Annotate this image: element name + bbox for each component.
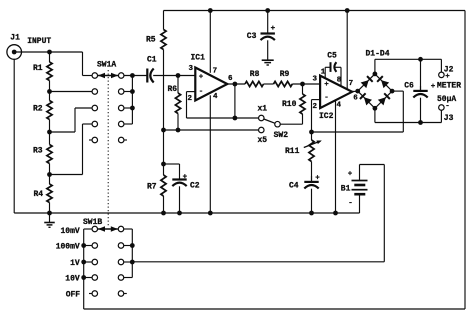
diode D4 bbox=[378, 97, 386, 105]
IC2 pin2 wire bbox=[312, 99, 321, 101]
node bridge bottom bbox=[373, 106, 378, 111]
wire to SW1A row2 bbox=[50, 91, 92, 93]
svg-text:+: + bbox=[431, 83, 436, 91]
node bridge left bbox=[355, 89, 360, 94]
svg-text:C5: C5 bbox=[327, 51, 337, 60]
switch SW2 bbox=[259, 115, 265, 121]
svg-text:R1: R1 bbox=[33, 64, 43, 73]
svg-text:IC1: IC1 bbox=[191, 53, 206, 62]
wire input to SW1A bbox=[14, 51, 82, 53]
svg-text:+: + bbox=[183, 173, 188, 181]
svg-text:SW1B: SW1B bbox=[83, 218, 102, 227]
resistor R7 bbox=[163, 164, 165, 175]
IC1 pin4 to ground bbox=[209, 95, 211, 213]
svg-text:SW2: SW2 bbox=[274, 131, 289, 140]
svg-text:+: + bbox=[315, 175, 320, 183]
IC1 pin7 to V+ bbox=[209, 11, 211, 73]
resistor R2 bbox=[49, 92, 51, 101]
svg-text:4: 4 bbox=[213, 93, 218, 101]
svg-text:R9: R9 bbox=[280, 70, 290, 79]
wire bridge bottom to J3 bbox=[374, 108, 376, 122]
resistor R9 bbox=[274, 81, 293, 86]
svg-text:C4: C4 bbox=[289, 181, 299, 190]
node R5R7/x5 bbox=[161, 128, 166, 133]
SW2 wiper bbox=[264, 119, 275, 123]
svg-text:R11: R11 bbox=[285, 147, 300, 156]
V+ supply loop bottom bbox=[84, 308, 465, 310]
node R4/ground rail bbox=[47, 211, 52, 216]
svg-text:R5: R5 bbox=[146, 35, 156, 44]
SW1B right bus bbox=[124, 228, 133, 230]
svg-text:-: - bbox=[348, 200, 353, 208]
resistor R1 bbox=[49, 52, 51, 62]
svg-text:1V: 1V bbox=[70, 259, 80, 268]
node input/R1 bbox=[47, 50, 52, 55]
svg-text:-: - bbox=[324, 94, 329, 102]
node C1/R6 bbox=[176, 73, 181, 78]
diode bridge D1-D4 bbox=[358, 74, 392, 108]
node C6 bottom bbox=[418, 120, 423, 125]
SW1B left bus bbox=[84, 228, 92, 230]
svg-text:100mV: 100mV bbox=[56, 243, 80, 252]
diode D2 bbox=[381, 80, 389, 88]
terminal J3 bbox=[439, 105, 445, 111]
node bridge right bbox=[390, 89, 395, 94]
svg-text:4: 4 bbox=[337, 101, 342, 109]
svg-text:+: + bbox=[445, 73, 450, 81]
op-amp IC1 bbox=[195, 68, 227, 101]
SW1A wiper arrow bbox=[98, 75, 118, 77]
node R3/R4 bbox=[47, 172, 52, 177]
diode D3 bbox=[364, 97, 372, 105]
wire R9 to IC2 bbox=[292, 83, 320, 85]
diode D1 bbox=[361, 80, 369, 88]
svg-text:+: + bbox=[271, 25, 276, 33]
x1 line bbox=[187, 117, 259, 119]
node C6 top bbox=[418, 57, 423, 62]
svg-text:-: - bbox=[199, 88, 204, 96]
svg-text:R6: R6 bbox=[168, 85, 178, 94]
connector J1 bbox=[7, 45, 22, 60]
svg-text:x5: x5 bbox=[258, 136, 268, 145]
resistor R4 bbox=[49, 175, 51, 185]
svg-text:SW1A: SW1A bbox=[97, 60, 116, 69]
svg-text:2: 2 bbox=[188, 95, 193, 103]
svg-text:IC2: IC2 bbox=[319, 112, 334, 121]
capacitor C2 bbox=[164, 163, 180, 165]
svg-text:+: + bbox=[199, 74, 204, 82]
SW1A OFF stubs bbox=[89, 139, 92, 141]
svg-text:R10: R10 bbox=[282, 100, 297, 109]
node R7/C2 branch bbox=[161, 162, 166, 167]
svg-text:C1: C1 bbox=[147, 55, 157, 64]
svg-text:D1-D4: D1-D4 bbox=[366, 50, 390, 59]
node R1/R2 bbox=[47, 89, 52, 94]
capacitor C4 bbox=[311, 162, 313, 182]
svg-text:7: 7 bbox=[349, 80, 354, 88]
capacitor C6 bbox=[420, 59, 422, 91]
svg-text:10mV: 10mV bbox=[61, 227, 80, 236]
svg-text:6: 6 bbox=[228, 75, 233, 83]
IC2 pin4 to ground bbox=[335, 100, 337, 213]
SW1A right bus bbox=[124, 75, 147, 77]
IC1 pin2 feedback wire bbox=[187, 91, 196, 93]
svg-text:R4: R4 bbox=[34, 190, 44, 199]
wire B1+ to switch feed bbox=[359, 165, 361, 181]
ground rail bbox=[14, 212, 359, 214]
SW1B OFF stubs bbox=[89, 293, 92, 295]
wire B1- to ground rail bbox=[359, 194, 361, 213]
resistor R3 bbox=[49, 132, 51, 145]
node R9/R10 bbox=[300, 82, 305, 87]
SW1A ganged dotted link bbox=[107, 70, 109, 227]
terminal J2 bbox=[439, 72, 445, 78]
svg-text:50µA: 50µA bbox=[437, 95, 456, 104]
svg-text:OFF: OFF bbox=[66, 291, 81, 300]
svg-text:x1: x1 bbox=[258, 104, 268, 113]
svg-text:R3: R3 bbox=[33, 147, 43, 156]
svg-text:INPUT: INPUT bbox=[27, 37, 51, 46]
wire R5 to R7 bbox=[163, 50, 165, 165]
C3 ground symbol bbox=[267, 40, 269, 60]
svg-text:R7: R7 bbox=[147, 182, 157, 191]
node R2/R3 bbox=[47, 130, 52, 135]
R11 arrow bbox=[304, 141, 321, 148]
IC2 pin7 to V+ bbox=[346, 11, 348, 90]
resistor R10 bbox=[302, 84, 304, 94]
wire J1 shield bbox=[13, 59, 15, 213]
top V+ rail bbox=[164, 10, 466, 12]
feedback line to bridge bbox=[312, 131, 404, 133]
svg-text:+: + bbox=[348, 170, 353, 178]
resistor R5 bbox=[163, 11, 165, 30]
IC2 output wire bbox=[352, 90, 358, 92]
svg-text:6: 6 bbox=[353, 95, 358, 103]
wire R8-R9 bbox=[264, 83, 274, 85]
svg-text:J1: J1 bbox=[10, 34, 20, 43]
wire R10 to SW2 common bbox=[280, 123, 302, 125]
ground symbol bbox=[49, 213, 51, 223]
svg-text:2: 2 bbox=[313, 103, 318, 111]
wire bridge top to J2 bbox=[374, 59, 376, 74]
node pin2/R11/feedback bbox=[309, 130, 314, 135]
svg-text:C6: C6 bbox=[404, 82, 414, 91]
node bridge top bbox=[373, 72, 378, 77]
svg-text:C3: C3 bbox=[247, 32, 257, 41]
resistor R8 bbox=[245, 81, 264, 86]
IC1 output wire bbox=[227, 83, 245, 85]
svg-text:7: 7 bbox=[213, 67, 218, 75]
svg-text:B1: B1 bbox=[341, 185, 351, 194]
svg-text:METER: METER bbox=[437, 82, 461, 91]
resistor R6 bbox=[177, 76, 179, 94]
svg-text:R8: R8 bbox=[250, 70, 260, 79]
SW1B wiper arrow bbox=[98, 228, 118, 230]
svg-text:3: 3 bbox=[313, 75, 318, 83]
V+ supply loop right side bbox=[464, 11, 466, 310]
svg-text:3: 3 bbox=[189, 65, 194, 73]
trimmer R11 bbox=[311, 132, 313, 140]
svg-text:10V: 10V bbox=[65, 275, 80, 284]
svg-text:C2: C2 bbox=[190, 182, 200, 191]
op-amp IC2 bbox=[320, 76, 352, 109]
x5 line to SW2 bbox=[164, 129, 259, 131]
wire to SW1A row3 bbox=[50, 131, 76, 133]
node IC1 out/feedback bbox=[233, 116, 238, 121]
node C3/V+ rail bbox=[265, 8, 270, 13]
svg-text:J3: J3 bbox=[444, 114, 454, 123]
node R6/x5 line bbox=[176, 128, 181, 133]
wire to SW1A row4 bbox=[50, 174, 83, 176]
svg-text:R2: R2 bbox=[33, 105, 43, 114]
svg-text:+: + bbox=[324, 81, 329, 89]
capacitor C3 bbox=[267, 11, 269, 34]
